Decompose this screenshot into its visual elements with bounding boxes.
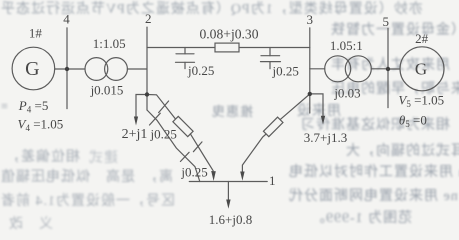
- svg-text:j0.03: j0.03: [333, 85, 360, 100]
- svg-text:G: G: [25, 58, 39, 80]
- svg-text:V5 =1.05: V5 =1.05: [398, 93, 444, 110]
- svg-text:G: G: [415, 59, 427, 78]
- load arrow at bus 2 (2+j1): [136, 95, 147, 119]
- impedance box circuit A (j0.25): [173, 116, 193, 136]
- svg-text:θ5 =0: θ5 =0: [399, 113, 427, 130]
- arrowhead load bus 1: [226, 200, 230, 209]
- bus 1: [189, 181, 267, 183]
- svg-text:j0.25: j0.25: [272, 64, 299, 79]
- svg-text:2#: 2#: [415, 31, 429, 46]
- arrowhead load bus 3: [321, 116, 325, 125]
- wire bus 3 to T2: [310, 68, 325, 70]
- svg-text:2: 2: [145, 11, 152, 26]
- junction dot bus 5: [386, 67, 390, 71]
- impedance box line 3-1: [263, 117, 283, 137]
- svg-text:3: 3: [306, 12, 313, 27]
- svg-text:4: 4: [63, 12, 70, 27]
- bus 2: [146, 27, 148, 110]
- svg-text:j0.25: j0.25: [180, 165, 207, 180]
- svg-text:j0.015: j0.015: [90, 83, 124, 98]
- generator G1: [12, 47, 55, 90]
- svg-text:j0.25: j0.25: [150, 127, 177, 142]
- load arrow at bus 3 (3.7+j1.3): [310, 94, 323, 117]
- tick on circuit A upper: [159, 101, 169, 113]
- svg-text:1#: 1#: [29, 26, 43, 41]
- transmission line 2-1 circuit A upper: [147, 95, 176, 120]
- junction dot bus 4: [65, 67, 69, 71]
- wire T1 to bus 2: [127, 68, 147, 70]
- junction dot bus 2: [145, 92, 149, 96]
- arrowhead load bus 2: [134, 117, 138, 126]
- svg-text:5: 5: [382, 14, 389, 29]
- svg-text:1:1.05: 1:1.05: [93, 36, 126, 51]
- arrowheads: [134, 116, 325, 209]
- tick on circuit A lower: [193, 142, 202, 152]
- transmission line 2-1 circuit B: [147, 110, 200, 182]
- wire G1 to bus 4: [55, 68, 67, 70]
- arrowhead circuit A onto bus 1: [211, 171, 216, 181]
- svg-text:1: 1: [269, 173, 276, 188]
- wire T2 to bus 5: [371, 68, 388, 70]
- svg-text:V4 =1.05: V4 =1.05: [18, 117, 64, 134]
- capacitor shunt right (j0.25): [261, 48, 281, 69]
- bleed-through background text rows (decorative): [0, 0, 423, 18]
- junction dots: [65, 67, 390, 97]
- svg-text:1.6+j0.8: 1.6+j0.8: [209, 212, 252, 227]
- bus 5: [387, 28, 389, 107]
- wire line 2-3: [147, 47, 310, 49]
- tick on circuit B lower: [180, 152, 189, 161]
- capacitor shunt left (j0.25): [176, 48, 195, 69]
- bus 3: [309, 28, 311, 113]
- svg-text:3.7+j1.3: 3.7+j1.3: [304, 130, 347, 145]
- arrowhead line 3-1 onto bus 1: [240, 172, 244, 181]
- svg-text:0.08+j0.30: 0.08+j0.30: [199, 27, 258, 42]
- svg-text:2+j1: 2+j1: [122, 127, 148, 142]
- transmission line 2-1 circuit A lower: [190, 134, 213, 171]
- generator G2: [400, 47, 444, 91]
- load arrow at bus 1 (1.6+j0.8): [227, 182, 229, 201]
- junction dot bus 3: [308, 92, 312, 96]
- wire bus 5 to G2: [388, 68, 400, 70]
- transformer T2: [325, 56, 351, 82]
- svg-text:j0.25: j0.25: [187, 63, 214, 78]
- impedance box line 2-3 (0.08+j0.30): [215, 43, 239, 52]
- transmission line 3-1: [280, 94, 310, 119]
- svg-text:P4 =5: P4 =5: [18, 98, 49, 115]
- tick on circuit B upper: [150, 113, 161, 125]
- transformer T1: [85, 58, 108, 81]
- bus 4: [66, 28, 68, 109]
- wire bus 4 to T1: [67, 68, 85, 70]
- svg-text:1.05:1: 1.05:1: [330, 38, 363, 53]
